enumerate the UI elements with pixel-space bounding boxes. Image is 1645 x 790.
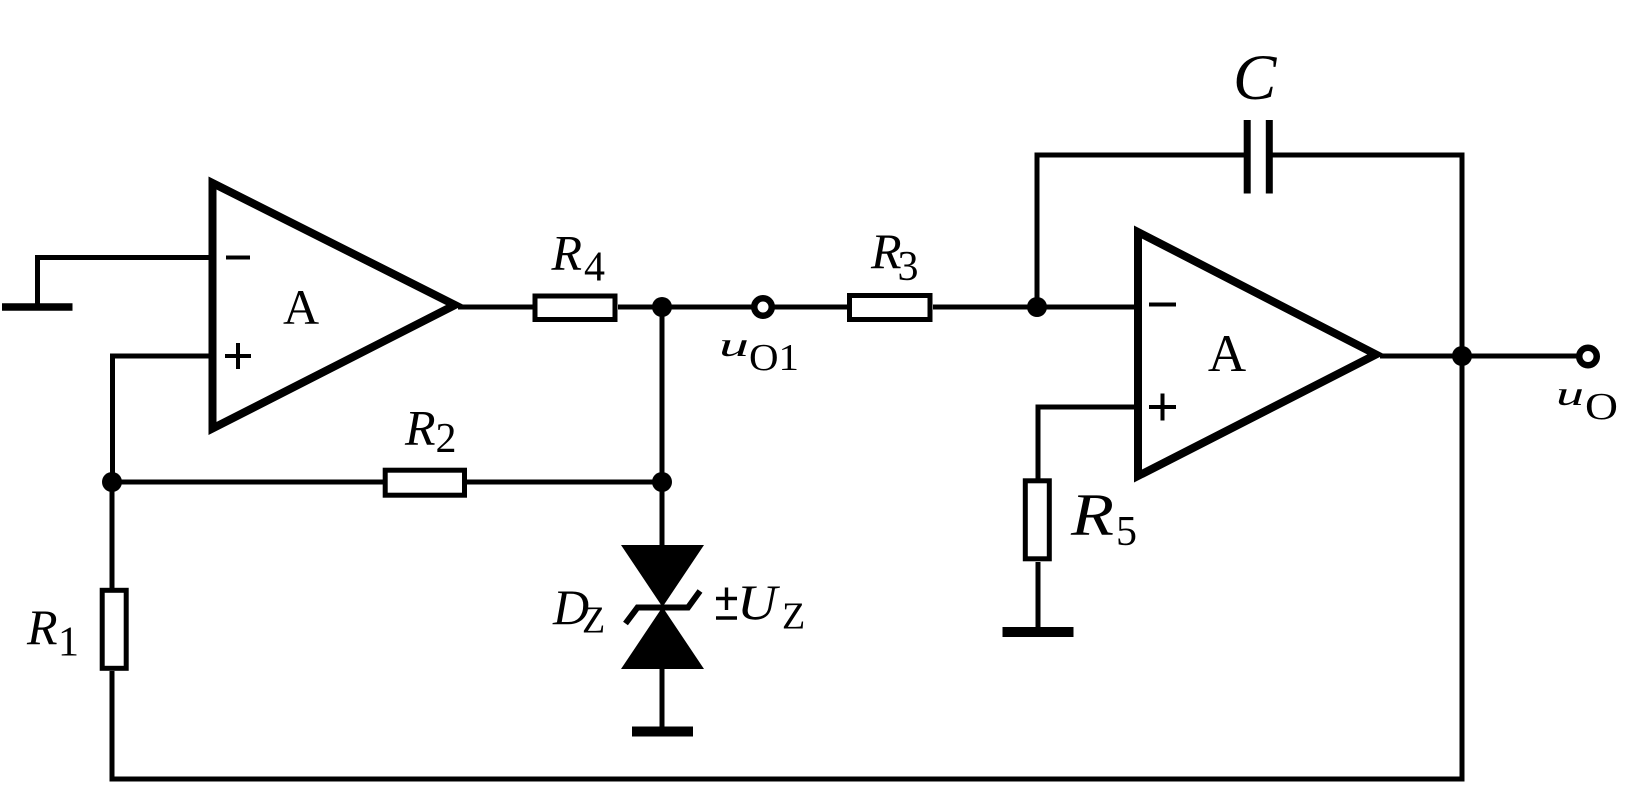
svg-text:A: A [283, 279, 319, 335]
resistor R2 [385, 470, 464, 495]
label R2 [404, 400, 457, 463]
wire: bottom feedback rail [110, 777, 1465, 782]
ground (under R5) [1003, 627, 1074, 637]
svg-text:U: U [737, 574, 780, 630]
label uO1 [719, 327, 799, 379]
label R5 [1070, 482, 1137, 555]
label R4 [551, 225, 606, 291]
label ±UZ [716, 574, 805, 638]
wire: R3 to node C (U2 inverting input node) [933, 305, 1140, 310]
terminal uO [1579, 348, 1597, 366]
wire: feedback rail to capacitor left plate [1035, 153, 1246, 158]
svg-text:5: 5 [1116, 509, 1137, 555]
label R3 [870, 223, 919, 290]
label uO [1556, 376, 1618, 428]
resistor R4 [535, 296, 615, 320]
node C (junction R3 / C feedback / U2 minus) [1027, 297, 1047, 317]
resistor R1 [102, 590, 126, 668]
svg-text:R: R [404, 400, 436, 456]
zener pair DZ top diode [621, 545, 704, 607]
U1 plus pin marker [225, 343, 251, 369]
wire: U1 noninverting input down to node A [113, 356, 215, 482]
label R1 [26, 599, 79, 666]
resistor R3 [850, 296, 931, 320]
ground (left, at U1 inverting input) [2, 303, 73, 311]
wire: U1 inverting input to ground [38, 258, 215, 306]
wire: R4 to node B [618, 305, 664, 310]
capacitor C [1247, 120, 1269, 194]
svg-text:Z: Z [582, 600, 605, 642]
svg-text:A: A [1208, 325, 1246, 383]
wire: node B to terminal uO1 [662, 305, 752, 310]
node A (junction +input / R1 / R2) [102, 472, 122, 492]
wire: node D down right-hand feedback rail [1460, 356, 1465, 782]
U2 minus pin marker [1149, 303, 1176, 307]
svg-text:4: 4 [584, 245, 605, 291]
wire: U2 noninverting input to R5 [1038, 407, 1140, 483]
op-amp U1 [213, 183, 456, 429]
node E (junction R2 / DZ) [652, 472, 672, 492]
node D (U2 output junction) [1452, 346, 1472, 366]
svg-text:Z: Z [782, 596, 805, 638]
wire: DZ to ground [660, 669, 665, 731]
wire: U2 output to terminal uO [1380, 354, 1577, 359]
resistor R5 [1025, 481, 1049, 559]
U2 plus pin marker [1149, 394, 1176, 421]
wire: terminal uO1 to R3 [775, 305, 850, 310]
wire: node C up to capacitor feedback rail [1035, 153, 1040, 308]
svg-text:u: u [1556, 376, 1584, 413]
U1 minus pin marker [226, 256, 250, 260]
svg-text:O1: O1 [749, 337, 799, 379]
wire: node A to R2 [112, 480, 385, 485]
wire: R1 bottom to bottom rail [110, 671, 115, 782]
zener pair DZ bottom diode [621, 607, 704, 669]
op-amp U2 [1138, 232, 1376, 476]
wire: node B down through node E to DZ [660, 307, 665, 547]
wire: R5 to ground [1036, 562, 1041, 632]
svg-text:3: 3 [898, 244, 919, 290]
wire: node A down to R1 [110, 482, 115, 588]
svg-text:R: R [1070, 482, 1114, 548]
zener cathode mark [626, 591, 701, 624]
wire: R2 to node E [467, 480, 664, 485]
svg-text:R: R [551, 225, 583, 281]
label DZ [552, 579, 605, 642]
svg-text:O: O [1585, 386, 1618, 428]
svg-text:u: u [719, 327, 749, 364]
svg-text:1: 1 [58, 620, 79, 666]
ground (under DZ) [632, 727, 693, 737]
wire: U1 output to R4 [458, 305, 534, 310]
svg-text:2: 2 [436, 416, 457, 462]
svg-text:R: R [26, 599, 58, 655]
terminal uO1 [754, 298, 772, 316]
wire: capacitor right plate to U2 output node [1271, 155, 1462, 358]
svg-text:C: C [1233, 42, 1277, 114]
node B (junction R4 / DZ branch / uO1) [652, 297, 672, 317]
